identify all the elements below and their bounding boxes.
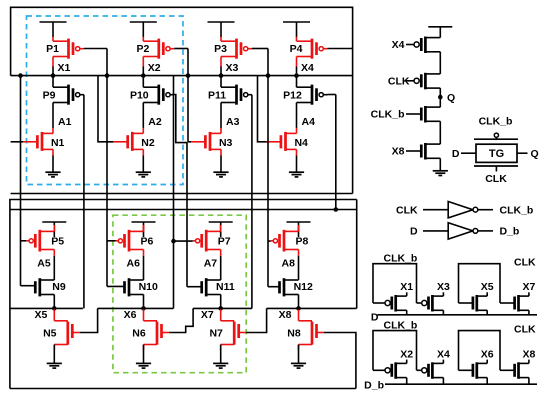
transistor X8 pass (NMOS) in output stack [392,143,441,160]
svg-text:CLK: CLK [396,205,418,217]
node X5 [34,306,56,321]
transistor X4 pass (PMOS) [417,348,450,384]
svg-text:CLK_b: CLK_b [384,253,418,265]
svg-text:A4: A4 [302,116,316,128]
wire: stack segment [439,88,441,107]
transistor P12 (PMOS) [283,76,327,113]
svg-text:A3: A3 [226,116,240,128]
ground below N2 [136,156,151,177]
svg-text:X5: X5 [481,281,494,293]
svg-text:X7: X7 [201,309,214,321]
wire: stack segment [439,52,441,74]
svg-text:TG: TG [489,148,504,160]
svg-text:P8: P8 [296,236,309,248]
ground below N8 [291,345,306,369]
wire: main node rail X1-X4 [11,75,353,77]
ground below N5 [47,345,62,369]
transistor P9 (PMOS) [43,76,84,113]
svg-text:X3: X3 [437,281,450,293]
svg-text:N6: N6 [132,327,146,339]
wire: N7 gate up to X8 rail [246,308,266,332]
VDD supply bar for output stack [428,27,452,38]
wire: N5 gate up to X6 rail [80,308,98,332]
node X2 [141,62,161,78]
wire: P6 gate lead [107,240,116,242]
wire: right border vertical (H2 to X8 rail) [356,200,358,309]
svg-text:P3: P3 [214,43,227,55]
wire: top border (P4 gate loop) [11,7,353,193]
wire: P4 gate to top border [328,48,353,50]
ground below N7 [213,345,228,369]
svg-text:X4: X4 [437,348,450,360]
transistor P5 (PMOS) [26,225,64,256]
wire: CLK_b rail [373,264,417,303]
svg-text:P6: P6 [141,236,154,248]
svg-text:X3: X3 [226,62,239,74]
wire: rail junction to P5/N9 gates (vertical) [18,73,23,285]
svg-text:A7: A7 [204,257,218,269]
wire: P8 gate lead [268,240,271,242]
svg-text:N1: N1 [51,137,65,149]
svg-text:P2: P2 [136,43,149,55]
transistor N8 (NMOS) [287,308,324,350]
transistor N9 (NMOS) [35,278,66,308]
wire: X2 rail to X6 rail (vertical) [171,76,176,309]
transistor P1 (PMOS) [46,37,84,76]
svg-text:N7: N7 [209,327,223,339]
dashed selection box (green, cols 2-3 bottom block) [113,215,246,373]
ground below N6 [136,345,151,369]
svg-text:CLK_b: CLK_b [371,109,405,121]
wire: left border to N1 gate [11,141,23,143]
VDD supply bar for P4 [283,22,310,37]
svg-text:A6: A6 [127,257,141,269]
wire: D_b rail [385,383,537,385]
wire: N12 gate lead [268,286,280,288]
svg-text:X2: X2 [400,348,413,360]
svg-text:N2: N2 [141,137,155,149]
svg-text:N8: N8 [287,327,301,339]
wire: X5 rail [10,307,83,309]
node X8 [279,306,301,321]
wire: horizontal line H3 (bottom block top edge) [10,209,357,211]
inverter D to D_b [410,223,519,239]
node A7 label and wire [204,256,221,280]
node X7 [201,306,223,321]
svg-text:Q: Q [447,92,455,104]
svg-text:N11: N11 [216,281,235,293]
wire: X8 rail [267,307,357,309]
transistor CLK_b (NMOS) in output stack [371,106,441,123]
wire: N10 gate lead [107,285,125,287]
wire: P1 gate to rail junction to P6/N10 gates (vertical) [84,49,109,287]
transistor P8 (PMOS) [271,225,309,256]
VDD supply bar for P2 [130,22,157,37]
svg-text:A1: A1 [58,116,72,128]
svg-text:N3: N3 [219,137,233,149]
svg-text:N10: N10 [139,281,158,293]
svg-text:CLK: CLK [485,173,507,185]
wire: X1 rail to N2 gate [98,76,113,142]
transistor N10 (NMOS) [125,278,158,308]
svg-text:D: D [371,311,379,323]
svg-text:Q: Q [531,148,539,160]
transistor CLK (PMOS) in output stack [388,73,440,90]
wire: N8 gate down to bottom rail [324,333,356,389]
wire: D rail [378,314,538,316]
transistor X4 pass (PMOS) in output stack [392,37,441,54]
transistor X7 pass (NMOS) [500,281,535,315]
transistor N2 (NMOS) [113,128,155,156]
transistor N6 (NMOS) [132,308,169,350]
inverter CLK to CLK_b [396,202,533,218]
transistor N1 (NMOS) [23,128,65,156]
svg-text:X1: X1 [400,281,413,293]
svg-text:P1: P1 [46,43,59,55]
TG D input [452,148,476,160]
transistor X6 pass (NMOS) [459,348,494,384]
transistor N4 (NMOS) [267,128,309,156]
VDD supply bar for P7 [209,222,233,237]
svg-text:N9: N9 [52,281,66,293]
wire: P9 gate down to X5 rail [83,95,85,309]
transistor P3 (PMOS) [214,37,252,76]
svg-text:CLK: CLK [388,76,410,88]
VDD supply bar for P8 [287,222,311,237]
VDD supply bar for P1 [40,22,67,37]
wire: P12 gate down to H3 [328,95,339,212]
node Q [438,92,455,104]
svg-text:A8: A8 [282,257,296,269]
TG Q output [517,148,539,160]
wire: X7 rail [193,307,252,309]
svg-text:X8: X8 [522,348,535,360]
svg-text:X2: X2 [148,62,161,74]
transistor X3 pass (PMOS) [417,281,450,315]
wire: horizontal line H1 [11,193,353,195]
svg-text:X4: X4 [301,62,314,74]
svg-text:X7: X7 [522,281,535,293]
wire: X3 rail to N4 gate [258,76,267,142]
transistor P11 (PMOS) [208,76,252,113]
node A6 label and wire [127,256,144,280]
svg-text:P9: P9 [43,89,56,101]
svg-text:CLK_b: CLK_b [384,320,418,332]
wire: horizontal line H2 [10,200,357,389]
svg-text:N5: N5 [43,327,57,339]
svg-text:CLK: CLK [514,257,536,269]
VDD supply bar for P3 [208,22,235,37]
svg-text:CLK_b: CLK_b [500,205,534,217]
svg-text:X8: X8 [392,146,405,158]
svg-text:D_b: D_b [364,379,384,391]
ground below N1 [45,156,60,177]
node A1 label and wire [53,113,72,128]
svg-text:D: D [410,226,418,238]
transistor P7 (PMOS) [193,225,231,256]
wire: stack segment [439,121,441,144]
svg-text:P12: P12 [283,89,302,101]
VDD supply bar for P6 [132,222,156,237]
svg-text:X8: X8 [279,309,292,321]
svg-text:N4: N4 [294,137,308,149]
svg-text:P5: P5 [51,236,64,248]
transistor P2 (PMOS) [136,37,174,76]
node X6 [124,306,146,321]
svg-text:X6: X6 [124,309,137,321]
wire: N6 gate jog up to X7 rail [169,308,193,332]
wire: bottom rail [10,388,356,390]
node X1 [51,62,71,78]
svg-text:CLK_b: CLK_b [479,116,513,128]
svg-text:A5: A5 [37,257,51,269]
transistor P10 (PMOS) [130,76,174,113]
transistor N11 (NMOS) [202,278,235,308]
wire: N11 gate lead [187,286,202,288]
ground below N4 [289,156,304,177]
svg-text:X6: X6 [481,348,494,360]
node A2 label and wire [143,113,162,128]
transistor X2 pass (PMOS) [373,348,413,384]
transistor P4 (PMOS) [290,37,328,76]
svg-text:P11: P11 [208,89,226,101]
transistor N3 (NMOS) [191,128,233,156]
svg-text:P10: P10 [130,89,149,101]
transistor N7 (NMOS) [209,308,246,350]
transmission gate TG box [474,133,518,171]
svg-text:P4: P4 [290,43,303,55]
transistor X5 pass (NMOS) [459,281,494,315]
svg-text:D_b: D_b [500,226,520,238]
svg-text:X1: X1 [58,62,71,74]
svg-text:N12: N12 [294,281,313,293]
VDD supply bar for P5 [42,222,66,237]
wire: X6 rail [98,307,174,309]
node A8 label and wire [282,256,299,280]
svg-text:A2: A2 [148,116,162,128]
svg-text:X4: X4 [392,39,405,51]
transistor P6 (PMOS) [116,225,154,256]
svg-text:P7: P7 [218,236,231,248]
node A4 label and wire [297,113,316,128]
node X4 [294,62,314,78]
node X3 [219,62,239,78]
transistor X1 pass (PMOS) [373,281,413,315]
wire: P2 gate down to N3 gate [174,49,191,142]
node A5 label and wire [37,256,54,280]
wire: P11 gate down to X7 rail [251,95,253,309]
svg-text:D: D [452,148,460,160]
wire: P5 gate lead [21,240,27,242]
wire: P7 gate lead [174,240,193,242]
transistor N12 (NMOS) [280,278,313,308]
ground below N3 [213,156,228,177]
node A3 label and wire [221,113,240,128]
wire: CLK_b rail [373,331,417,371]
wire: N9 gate lead [21,285,36,287]
transistor X8 pass (NMOS) [500,348,535,384]
svg-text:CLK: CLK [514,324,536,336]
dashed selection box (cyan, cols 1-2 top block) [27,16,184,185]
wire: CLK rail [459,264,501,303]
wire: P10 gate jog down to N11 gate [174,95,187,287]
ground below output stack [433,158,448,175]
wire: P3 gate down to P8/N12 gates [252,49,270,287]
transistor N5 (NMOS) [43,308,80,350]
wire: CLK rail [459,331,501,371]
svg-text:X5: X5 [34,309,47,321]
